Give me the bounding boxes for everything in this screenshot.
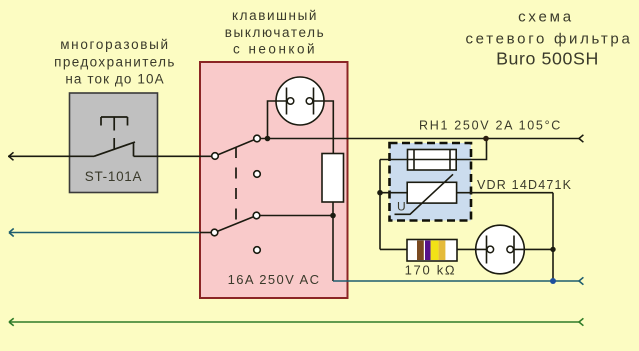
wire RH1 to top node	[456, 139, 486, 160]
junction node VDR left	[377, 190, 383, 196]
RH1 end bars	[414, 150, 450, 171]
wire N in (left, with arrow)	[9, 229, 200, 237]
svg-text:U: U	[397, 199, 406, 213]
annotation: fuse label	[54, 37, 176, 86]
breaker F1 thermal element (T symbol)	[101, 117, 128, 149]
resistor R2 body 170k	[407, 240, 457, 262]
junction node top-neon	[265, 136, 271, 142]
svg-text:16A 250V AC: 16A 250V AC	[228, 272, 321, 287]
wire VDR left lead	[380, 192, 407, 194]
neon HL2 electrodes	[487, 236, 515, 264]
svg-text:многоразовый: многоразовый	[60, 37, 170, 52]
wire L in (left, with arrow)	[8, 152, 94, 160]
wire through RH1	[380, 159, 456, 161]
wire PE ground (green, arrows both ends)	[9, 318, 583, 326]
wire VDR right lead	[457, 192, 553, 194]
annotation: title	[465, 8, 632, 68]
svg-text:клавишный: клавишный	[232, 8, 318, 23]
svg-text:Buro 500SH: Buro 500SH	[496, 48, 599, 68]
svg-text:с неонкой: с неонкой	[233, 41, 317, 56]
wire R1 to node	[332, 202, 334, 216]
wire L top (switch to right, fork end)	[257, 135, 583, 142]
VDR module dashed box	[390, 143, 472, 221]
junction node top-RH1	[483, 136, 489, 142]
svg-text:VDR 14D471K: VDR 14D471K	[477, 178, 572, 192]
switch S1 pole1 lever	[215, 139, 257, 157]
wire node down	[332, 216, 334, 282]
switch contacts (circles)	[211, 135, 260, 253]
svg-text:выключатель: выключатель	[225, 25, 326, 40]
R2 band violet	[425, 241, 431, 261]
junction node bottom switch	[330, 213, 336, 219]
wire L gray box to switch	[211, 155, 215, 157]
wire left bus (vertical)	[379, 160, 381, 250]
R2 band yellow	[431, 241, 439, 261]
neon HL1 electrodes	[287, 88, 314, 115]
svg-text:ST-101A: ST-101A	[85, 169, 142, 184]
thermal fuse RH1 symbol	[408, 150, 457, 171]
fuse box (gray)	[70, 93, 158, 193]
varistor VDR symbol	[407, 182, 456, 203]
wire N out (bottom right, fork end)	[333, 277, 583, 284]
R2 band brown	[417, 241, 424, 261]
svg-text:170 kΩ: 170 kΩ	[405, 263, 457, 278]
wire right bus (vertical)	[552, 193, 554, 281]
annotation: switch label	[225, 8, 326, 56]
varistor diagonal	[395, 174, 454, 214]
svg-text:RH1 250V 2A 105°C: RH1 250V 2A 105°C	[419, 119, 562, 133]
neon HL2 leads	[476, 248, 553, 250]
R2 band gold	[439, 241, 446, 261]
pink box (switch module)	[200, 62, 348, 298]
junction node N (blue)	[550, 278, 556, 284]
junction node neon2 right	[550, 247, 555, 252]
svg-text:сетевого фильтра: сетевого фильтра	[465, 31, 632, 48]
neon HL1 leads	[268, 101, 334, 154]
switch S1 pole2 lever	[215, 216, 257, 233]
resistor R2 leads	[380, 248, 476, 250]
svg-text:предохранитель: предохранитель	[54, 54, 176, 69]
svg-text:на ток до 10А: на ток до 10А	[65, 71, 164, 86]
neon lamp HL2 envelope	[476, 225, 525, 274]
resistor R1 (neon series, in switch)	[322, 154, 344, 203]
switch S1 mechanical link (dashed)	[235, 147, 237, 224]
svg-text:схема: схема	[518, 8, 574, 25]
breaker F1 lever and contact	[94, 142, 211, 156]
wire N switch to node	[257, 215, 334, 217]
wire N inside switch box	[200, 232, 211, 234]
neon lamp HL1 envelope	[276, 77, 324, 125]
